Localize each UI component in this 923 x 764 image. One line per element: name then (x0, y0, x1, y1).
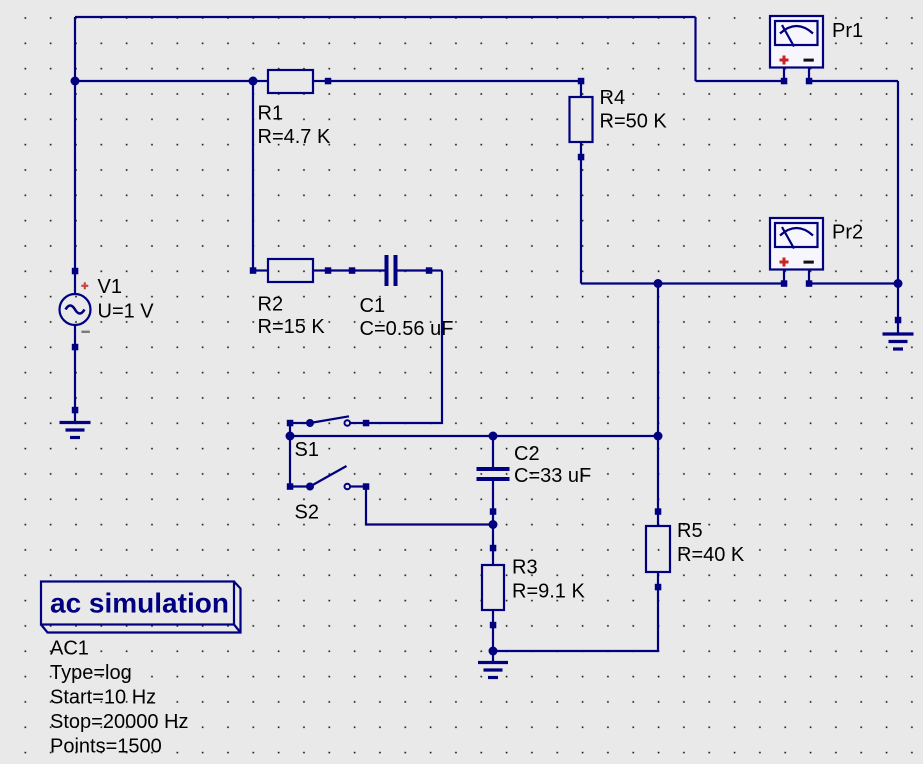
voltmeter probe Pr2 (770, 218, 823, 287)
svg-text:R=4.7 K: R=4.7 K (258, 126, 331, 148)
junction node C2 top (489, 432, 498, 441)
wire Pr2 minus to right node (809, 282, 898, 284)
wire node to V1 top (74, 81, 76, 271)
ac simulation box (41, 582, 241, 633)
wire top-left vertical (74, 17, 76, 81)
wire R2 to C1 (328, 269, 352, 271)
junction node Pr2 minus / right ground (894, 279, 903, 288)
svg-text:Pr1: Pr1 (832, 20, 863, 42)
capacitor C2 (492, 436, 494, 512)
wire R3 bottom to ground node (492, 625, 494, 651)
junction node Pr2 row / R5 branch (654, 279, 663, 288)
capacitor C1 (352, 269, 429, 271)
svg-text:Start=10 Hz: Start=10 Hz (50, 687, 156, 709)
svg-text:C=0.56 uF: C=0.56 uF (360, 318, 454, 340)
svg-text:Points=1500: Points=1500 (50, 736, 162, 758)
wire to Pr1 plus terminal (696, 80, 785, 82)
wire corner down to S1 (366, 271, 442, 424)
svg-text:R=40 K: R=40 K (677, 544, 745, 566)
junction node C2 bottom / R3 top (489, 520, 498, 529)
wire Pr1 minus to right column (809, 80, 898, 82)
wire C1 to corner (429, 269, 442, 271)
svg-text:R2: R2 (258, 294, 284, 316)
svg-text:U=1 V: U=1 V (98, 301, 155, 323)
voltmeter probe Pr1 (770, 16, 823, 84)
junction node R1 left / R2 branch (249, 77, 258, 86)
svg-text:Pr2: Pr2 (832, 222, 863, 244)
svg-text:Type=log: Type=log (50, 662, 132, 684)
ac source V1 (60, 271, 91, 347)
wire main row left (node to R1) (75, 80, 253, 82)
svg-text:S2: S2 (295, 502, 319, 524)
switch S2 (290, 466, 366, 489)
wire S2 right down and to C2 bottom node (366, 487, 493, 525)
wire R5 bottom down (657, 587, 659, 651)
ground at right column (883, 320, 914, 349)
V1 plus polarity mark (81, 282, 88, 289)
svg-text:S1: S1 (295, 439, 319, 461)
junction node R3 bottom ground (489, 647, 498, 656)
svg-text:R=9.1 K: R=9.1 K (512, 581, 585, 603)
wire node to R3 top (492, 525, 494, 549)
junction node at V1/R1 row (71, 77, 80, 86)
svg-text:R3: R3 (512, 557, 538, 579)
svg-text:AC1: AC1 (50, 638, 89, 660)
wire top-right vertical drop to Pr1 (694, 17, 696, 81)
wire bottom row to ground node (493, 650, 658, 652)
V1 pin squares (72, 268, 79, 351)
wire node B down to R5 net (657, 284, 659, 437)
wire S1 left down to S2 left (289, 423, 291, 487)
resistor R1 (253, 70, 328, 93)
resistor R3 (482, 548, 504, 625)
resistor R2 (253, 259, 328, 282)
svg-text:R5: R5 (677, 520, 703, 542)
svg-text:R1: R1 (258, 103, 284, 125)
svg-text:R=50 K: R=50 K (600, 111, 668, 133)
resistor R5 (646, 512, 670, 588)
svg-text:R=15 K: R=15 K (258, 316, 326, 338)
wire top horizontal (75, 16, 696, 18)
svg-text:Stop=20000 Hz: Stop=20000 Hz (50, 711, 188, 733)
wire node B to R5 top (657, 436, 659, 512)
svg-text:C2: C2 (514, 443, 540, 465)
wire V1 bottom to ground (74, 347, 76, 410)
wire R4 bottom vertical (580, 157, 582, 284)
V1 minus polarity mark (81, 331, 89, 333)
ground for V1 (60, 410, 91, 438)
svg-text:C1: C1 (360, 295, 386, 317)
svg-text:C=33 uF: C=33 uF (514, 465, 591, 487)
ground at bottom center (478, 651, 508, 678)
switch S1 (290, 416, 366, 426)
wire right node to ground (897, 284, 899, 321)
resistor R4 (570, 81, 593, 157)
wire Pr2 row left (581, 282, 784, 284)
svg-text:V1: V1 (98, 276, 122, 298)
junction node R5 top (654, 432, 663, 441)
svg-text:ac simulation: ac simulation (50, 588, 229, 619)
svg-text:R4: R4 (600, 87, 626, 109)
wire right column vertical (897, 81, 899, 284)
wire node to R2 left (252, 81, 254, 271)
wire R1 to R4 (328, 80, 581, 82)
wire middle row y436 (290, 435, 658, 437)
wire C2 bottom to node (492, 512, 494, 525)
junction node S1 branch (286, 432, 295, 441)
